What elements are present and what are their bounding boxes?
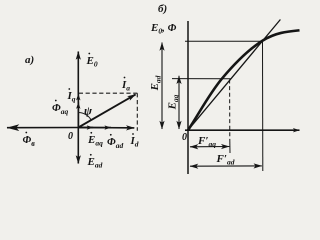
- svg-text:a): a): [25, 54, 34, 66]
- svg-text:0: 0: [182, 132, 187, 143]
- svg-text:E0, Φ: E0, Φ: [150, 22, 177, 36]
- svg-text:ψ: ψ: [84, 104, 93, 118]
- svg-text:б): б): [158, 3, 167, 15]
- svg-text:0: 0: [68, 131, 73, 142]
